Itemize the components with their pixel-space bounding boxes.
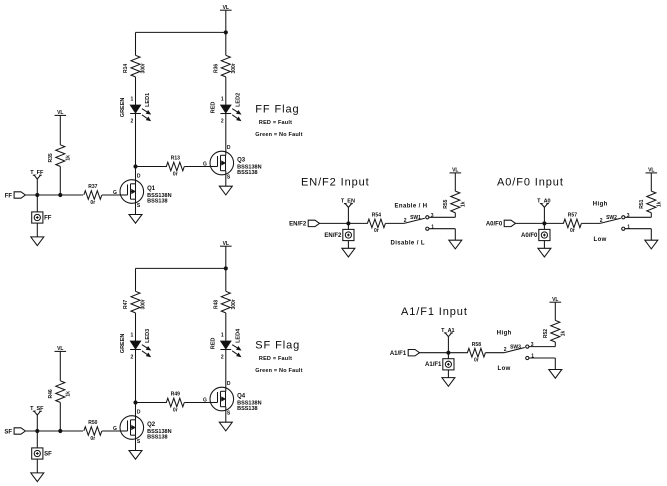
svg-text:Low: Low <box>594 237 607 243</box>
LED LED2 red <box>210 93 241 125</box>
svg-text:S: S <box>227 174 231 180</box>
resistor R55 1k pull-up <box>443 191 467 213</box>
svg-text:A1/F1: A1/F1 <box>390 351 407 357</box>
svg-text:1k: 1k <box>66 391 72 397</box>
LED LED3 green <box>120 329 151 361</box>
svg-text:D: D <box>227 381 231 387</box>
test point T_EN <box>341 199 355 224</box>
svg-text:RED: RED <box>210 338 216 350</box>
wire down to pad <box>36 195 38 212</box>
resistor R50 0r <box>84 420 102 442</box>
svg-text:R55: R55 <box>443 199 449 208</box>
svg-text:1: 1 <box>627 224 630 230</box>
wire contact 3 to pullup <box>625 216 651 218</box>
transistor Q3 BSS138N <box>203 145 262 181</box>
svg-text:EN/F2 Input: EN/F2 Input <box>301 177 370 189</box>
svg-text:High: High <box>593 201 608 207</box>
wire pad to ground <box>36 223 38 237</box>
wire input <box>420 352 468 354</box>
svg-text:LED1: LED1 <box>145 93 151 107</box>
svg-text:1: 1 <box>221 97 224 103</box>
switch SW2 SPDT <box>600 213 630 231</box>
svg-text:1k: 1k <box>561 331 567 337</box>
svg-text:0r: 0r <box>173 407 178 413</box>
wire resistor to VL <box>554 302 556 320</box>
switch SW3 SPDT <box>504 342 534 360</box>
ground under pad <box>31 473 44 482</box>
svg-text:VL: VL <box>223 5 229 11</box>
wire down to pad <box>347 223 349 229</box>
wire to switch <box>485 352 504 354</box>
svg-text:A1/F1 Input: A1/F1 Input <box>401 306 468 318</box>
wire down to pad <box>36 431 38 448</box>
svg-text:1: 1 <box>531 354 534 360</box>
wire down to ground <box>454 229 456 241</box>
resistor R51 1k pull-up <box>639 191 663 213</box>
wire VL down <box>225 10 227 55</box>
svg-text:SW1: SW1 <box>410 215 421 221</box>
junction testpoint <box>36 193 39 196</box>
svg-text:BSS138: BSS138 <box>237 406 258 412</box>
svg-text:Disable / L: Disable / L <box>391 240 425 246</box>
wire down to ground <box>650 229 652 241</box>
resistor R36 300r <box>214 55 238 77</box>
resistor R48 300r <box>214 291 238 313</box>
resistor R14 300r <box>123 55 147 77</box>
svg-text:SF: SF <box>4 429 12 435</box>
svg-text:G: G <box>203 398 207 404</box>
wire LED cathode to drain <box>225 114 227 156</box>
svg-text:R36: R36 <box>214 64 220 73</box>
resistor R57 0r <box>563 213 581 235</box>
svg-text:LED2: LED2 <box>235 93 241 107</box>
test point T_A0 <box>537 199 550 224</box>
wire to switch <box>385 222 404 224</box>
svg-text:FF: FF <box>44 215 52 221</box>
svg-text:R48: R48 <box>214 300 220 309</box>
svg-text:S: S <box>137 203 141 209</box>
ground under Q2 <box>129 451 142 460</box>
svg-text:VL: VL <box>57 110 63 116</box>
svg-text:GREEN: GREEN <box>120 98 126 118</box>
svg-text:D: D <box>227 145 231 151</box>
resistor R52 1k pull-up <box>543 320 567 342</box>
LED LED1 green <box>120 93 151 125</box>
ground under Q1 <box>129 215 142 224</box>
wire pad to ground <box>543 241 545 249</box>
wire resistor to LED anode <box>225 313 227 341</box>
resistor R54 0r <box>367 213 385 235</box>
svg-text:BSS138: BSS138 <box>147 435 168 441</box>
svg-text:1k: 1k <box>461 201 467 207</box>
transistor Q1 BSS138N <box>113 173 172 209</box>
svg-text:1: 1 <box>221 333 224 339</box>
wire node to gate resistor <box>136 166 167 168</box>
wire contact 1 to ground <box>529 357 555 359</box>
svg-text:0r: 0r <box>474 358 479 364</box>
wire source down <box>225 171 227 187</box>
wire up to resistor <box>454 213 456 218</box>
wire down to pad <box>447 353 449 359</box>
transistor Q2 BSS138N <box>113 409 172 445</box>
svg-text:SW2: SW2 <box>606 215 617 221</box>
svg-text:SF Flag: SF Flag <box>255 340 300 352</box>
power VL <box>646 168 658 174</box>
junction testpoint <box>543 222 546 225</box>
svg-text:BSS138: BSS138 <box>147 199 168 205</box>
power VL <box>450 168 462 174</box>
wire pad to ground <box>36 459 38 473</box>
svg-text:A0/F0: A0/F0 <box>521 233 538 239</box>
junction testpoint <box>36 429 39 432</box>
svg-text:Q4: Q4 <box>237 394 246 400</box>
ground under pad <box>538 248 551 257</box>
svg-text:Q2: Q2 <box>147 422 156 428</box>
wire input <box>25 430 83 432</box>
svg-text:RED = Fault: RED = Fault <box>259 120 292 126</box>
wire pullup to node <box>59 402 61 431</box>
wire node to gate resistor <box>136 402 167 404</box>
wire pullup to node <box>59 166 61 195</box>
svg-text:Low: Low <box>498 366 511 372</box>
svg-text:2: 2 <box>221 354 224 360</box>
pad FF <box>32 212 52 223</box>
svg-text:1k: 1k <box>66 155 72 161</box>
ground under pad <box>342 248 355 257</box>
resistor R37 0r <box>84 184 102 206</box>
svg-text:1: 1 <box>131 97 134 103</box>
test point T_FF <box>30 170 44 195</box>
junction pullup <box>59 193 62 196</box>
wire contact 3 to pullup <box>529 346 555 348</box>
svg-text:3: 3 <box>431 213 434 219</box>
svg-text:VL: VL <box>452 168 458 174</box>
svg-text:Enable / H: Enable / H <box>395 204 428 210</box>
power VL rail (SF flag) <box>220 241 232 247</box>
wire contact 1 to ground <box>429 228 455 230</box>
resistor R49 0r <box>166 392 184 414</box>
svg-text:3: 3 <box>531 342 534 348</box>
svg-text:R14: R14 <box>123 64 129 73</box>
svg-text:D: D <box>137 409 141 415</box>
wire down to left LED resistor <box>135 268 137 291</box>
test point T_A1 <box>441 328 454 353</box>
svg-text:2: 2 <box>600 218 603 224</box>
svg-text:2: 2 <box>221 118 224 124</box>
wire source down <box>135 435 137 450</box>
svg-text:S: S <box>227 410 231 416</box>
wire resistor to LED anode <box>225 77 227 105</box>
svg-text:T_A0: T_A0 <box>537 199 550 205</box>
svg-text:T_SF: T_SF <box>30 406 44 412</box>
ground under pad <box>31 237 44 246</box>
connector FF input <box>5 192 26 200</box>
svg-text:Q3: Q3 <box>237 158 246 164</box>
svg-text:FF Flag: FF Flag <box>255 104 299 116</box>
wire up to resistor <box>554 342 556 347</box>
power VL pull-up <box>55 346 67 352</box>
svg-text:R37: R37 <box>88 184 97 190</box>
svg-text:EN/F2: EN/F2 <box>324 233 342 239</box>
resistor R47 300r <box>123 291 147 313</box>
wire contact 1 to ground <box>625 228 651 230</box>
wire contact 3 to pullup <box>429 216 455 218</box>
wire pullup to VL <box>59 115 61 144</box>
resistor R13 0r <box>166 156 184 178</box>
ground under Q4 <box>219 422 232 431</box>
svg-text:T_FF: T_FF <box>30 170 44 176</box>
transistor Q4 BSS138N <box>203 381 262 417</box>
wire resistor to LED anode <box>135 313 137 341</box>
ground SW3 <box>549 370 562 379</box>
svg-text:300r: 300r <box>141 63 147 73</box>
wire source down <box>225 407 227 423</box>
svg-text:G: G <box>203 162 207 168</box>
svg-text:FF: FF <box>5 193 13 199</box>
pad A0/F0 <box>521 229 550 240</box>
power VL rail (FF flag) <box>220 5 232 11</box>
junction testpoint <box>447 351 450 354</box>
svg-text:S: S <box>137 439 141 445</box>
svg-text:R46: R46 <box>48 389 54 398</box>
svg-text:R58: R58 <box>472 342 481 348</box>
svg-text:R49: R49 <box>171 392 180 398</box>
wire branch to left LED leg <box>136 267 226 269</box>
svg-text:R47: R47 <box>123 300 129 309</box>
svg-text:0r: 0r <box>90 436 95 442</box>
svg-text:VL: VL <box>57 346 63 352</box>
svg-text:EN/F2: EN/F2 <box>289 222 307 228</box>
wire pullup to VL <box>59 351 61 380</box>
svg-text:Green = No Fault: Green = No Fault <box>255 368 302 374</box>
svg-text:1k: 1k <box>657 201 663 207</box>
power VL <box>550 297 562 303</box>
svg-text:R35: R35 <box>48 153 54 162</box>
junction <box>224 267 227 270</box>
svg-text:300r: 300r <box>141 299 147 309</box>
svg-text:T_EN: T_EN <box>341 199 355 205</box>
wire input <box>25 194 83 196</box>
pad SF <box>32 448 52 459</box>
switch SW1 SPDT <box>404 213 434 231</box>
wire VL down <box>225 246 227 291</box>
wire node down to drain <box>135 167 137 184</box>
wire input <box>516 222 564 224</box>
wire resistor to gate <box>184 166 210 168</box>
wire input <box>320 222 368 224</box>
svg-text:0r: 0r <box>173 171 178 177</box>
ground under pad <box>442 378 455 387</box>
svg-text:3: 3 <box>627 213 630 219</box>
svg-text:2: 2 <box>404 218 407 224</box>
svg-text:RED = Fault: RED = Fault <box>259 356 292 362</box>
svg-text:LED3: LED3 <box>145 329 151 343</box>
svg-text:0r: 0r <box>374 228 379 234</box>
svg-text:R50: R50 <box>88 420 97 426</box>
wire down to ground <box>554 358 556 370</box>
svg-text:A1/F1: A1/F1 <box>425 362 442 368</box>
svg-text:0r: 0r <box>570 228 575 234</box>
svg-text:SF: SF <box>44 451 52 457</box>
svg-text:VL: VL <box>648 168 654 174</box>
power VL pull-up <box>55 110 67 116</box>
connector SF input <box>4 428 25 436</box>
ground under Q3 <box>219 186 232 195</box>
pad A1/F1 <box>425 359 454 370</box>
resistor R58 0r <box>467 342 485 364</box>
svg-text:R57: R57 <box>568 213 577 219</box>
resistor R46 1k pull-up <box>48 381 72 403</box>
svg-text:GREEN: GREEN <box>120 334 126 354</box>
svg-text:High: High <box>497 331 512 337</box>
wire to gate <box>102 194 120 196</box>
svg-text:0r: 0r <box>90 200 95 206</box>
connector EN/F2 <box>289 220 319 228</box>
svg-text:1: 1 <box>131 333 134 339</box>
pad EN/F2 <box>324 229 354 240</box>
svg-text:R54: R54 <box>372 213 381 219</box>
wire up to resistor <box>650 213 652 218</box>
wire LED cathode down to node <box>135 114 137 167</box>
svg-text:2: 2 <box>131 118 134 124</box>
svg-text:VL: VL <box>223 241 229 247</box>
wire down to pad <box>543 223 545 229</box>
svg-text:300r: 300r <box>231 299 237 309</box>
wire source down <box>135 199 137 214</box>
wire LED cathode down to node <box>135 350 137 403</box>
svg-text:R52: R52 <box>543 329 549 338</box>
svg-text:A0/F0: A0/F0 <box>486 222 503 228</box>
wire LED cathode to drain <box>225 350 227 392</box>
connector A1/F1 <box>390 350 420 358</box>
wire to switch <box>581 222 600 224</box>
svg-text:2: 2 <box>504 347 507 353</box>
svg-text:BSS138: BSS138 <box>237 170 258 176</box>
svg-text:RED: RED <box>210 102 216 114</box>
LED LED4 red <box>210 328 241 360</box>
svg-text:A0/F0 Input: A0/F0 Input <box>497 177 564 189</box>
test point T_SF <box>30 406 44 431</box>
junction testpoint <box>347 222 350 225</box>
junction node drain/gate <box>134 401 137 404</box>
svg-text:2: 2 <box>131 354 134 360</box>
ground SW1 <box>449 240 462 249</box>
junction <box>224 31 227 34</box>
wire branch to left LED leg <box>136 31 226 33</box>
wire node down to drain <box>135 403 137 420</box>
svg-text:SW3: SW3 <box>510 345 521 351</box>
wire resistor to LED anode <box>135 77 137 105</box>
junction pullup <box>59 429 62 432</box>
wire resistor to VL <box>454 173 456 191</box>
wire to gate <box>102 430 120 432</box>
svg-text:VL: VL <box>552 297 558 303</box>
svg-text:R13: R13 <box>171 156 180 162</box>
wire pad to ground <box>447 370 449 378</box>
svg-text:300r: 300r <box>231 63 237 73</box>
svg-text:1: 1 <box>431 224 434 230</box>
resistor R35 1k pull-up <box>48 145 72 167</box>
wire resistor to gate <box>184 402 210 404</box>
wire down to left LED resistor <box>135 32 137 55</box>
svg-text:T_A1: T_A1 <box>441 328 454 334</box>
wire resistor to VL <box>650 173 652 191</box>
svg-text:R51: R51 <box>639 199 645 208</box>
svg-text:Green = No Fault: Green = No Fault <box>255 132 302 138</box>
wire pad to ground <box>347 241 349 249</box>
svg-text:D: D <box>137 173 141 179</box>
ground SW2 <box>645 240 658 249</box>
svg-text:LED4: LED4 <box>235 328 241 343</box>
svg-text:Q1: Q1 <box>147 186 156 192</box>
connector A0/F0 <box>486 220 516 228</box>
junction node drain/gate <box>134 165 137 168</box>
